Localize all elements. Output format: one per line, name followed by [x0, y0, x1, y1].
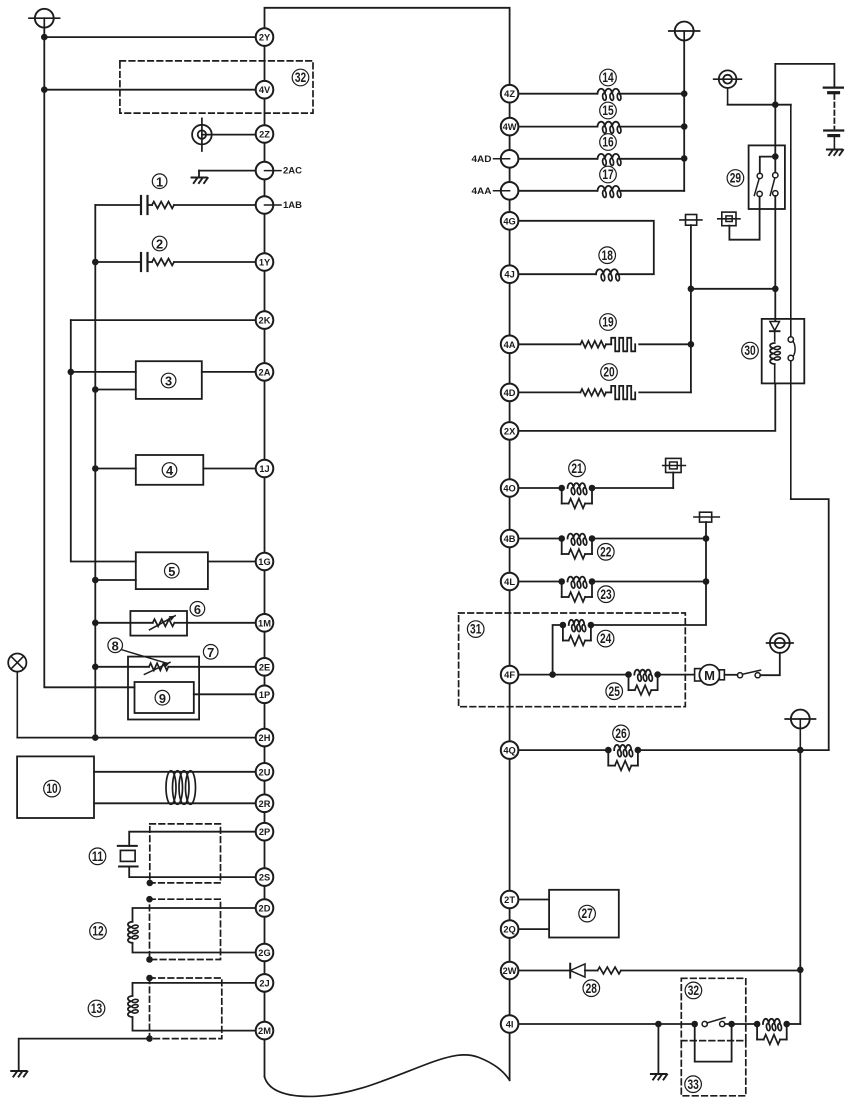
wire 2X to relay30 coil	[510, 383, 776, 431]
box unit 27	[549, 890, 619, 938]
dashed box shield 32 (top, around connector 4V)	[120, 61, 313, 113]
node 2K	[256, 311, 274, 329]
svg-text:4D: 4D	[504, 388, 516, 398]
dashed box shield 13	[150, 978, 222, 1039]
svg-text:19: 19	[602, 315, 613, 331]
junction 4L row at x=706	[703, 578, 710, 585]
junction shield box13 top corner	[146, 975, 153, 982]
svg-text:4W: 4W	[503, 122, 517, 132]
junction x=775 at link	[772, 286, 779, 293]
svg-text:2G: 2G	[258, 948, 270, 958]
box unit 6 variable resistor	[95, 611, 264, 636]
junction box4 on x=95 rail	[92, 465, 99, 472]
svg-text:2AC: 2AC	[283, 166, 302, 177]
svg-text:29: 29	[730, 171, 741, 187]
wire 4B row	[510, 538, 706, 540]
svg-text:9: 9	[159, 691, 166, 706]
svg-text:2M: 2M	[258, 1026, 271, 1036]
svg-text:4G: 4G	[503, 216, 515, 226]
inductor L14 from 4Z	[510, 89, 685, 101]
node 4O	[501, 479, 519, 497]
node 2P	[256, 823, 274, 841]
svg-text:23: 23	[600, 587, 611, 603]
label 16	[600, 134, 617, 151]
symbol coaxial connector at 2Z	[192, 118, 264, 151]
wire link fuse-rail to relay rail	[691, 288, 775, 290]
dashed box switch unit 32 (bottom)	[681, 978, 746, 1040]
dashed box unit 33 (bottom)	[681, 1041, 746, 1096]
junction battery feed	[772, 101, 779, 108]
ground bottom-left	[11, 1071, 27, 1077]
node 2D	[256, 899, 274, 917]
wire battery feed	[728, 64, 835, 105]
svg-text:1: 1	[156, 174, 163, 189]
fuse symbol (square) for 22	[694, 512, 719, 538]
wire into relay 29 from battery rail	[774, 105, 776, 173]
svg-text:2D: 2D	[259, 904, 271, 914]
node 2Z	[256, 125, 274, 143]
diode in relay30	[770, 319, 780, 341]
label 32 bottom	[685, 982, 702, 999]
wire ground tap	[657, 1024, 659, 1074]
svg-text:1G: 1G	[258, 557, 270, 567]
svg-text:2Y: 2Y	[259, 33, 271, 43]
label 15	[600, 102, 617, 119]
unit 24 parallel L-R	[560, 620, 595, 646]
svg-text:4L: 4L	[504, 577, 515, 587]
junction link left	[688, 286, 695, 293]
node 2T	[501, 891, 519, 909]
node 1P	[256, 686, 274, 704]
svg-text:4A: 4A	[504, 340, 516, 350]
svg-text:4F: 4F	[504, 670, 515, 680]
fuse symbol (square) main	[680, 215, 702, 226]
node 2X	[501, 422, 519, 440]
label 7	[203, 645, 218, 660]
wire motor to switch	[724, 674, 737, 676]
svg-text:2W: 2W	[503, 966, 517, 976]
coil L18 between 4G and 4J	[510, 221, 654, 281]
relay29 left branch wire	[760, 157, 776, 174]
label 17	[600, 166, 617, 183]
svg-text:4B: 4B	[504, 534, 516, 544]
junction 2W row at far-right rail	[797, 967, 804, 974]
svg-text:1J: 1J	[259, 464, 269, 474]
relay box 30	[762, 319, 805, 384]
wire rail x=706 down	[705, 539, 707, 582]
symbol lamp/load above inductor bank	[669, 22, 700, 41]
label 12	[90, 923, 107, 940]
label 31	[467, 621, 484, 638]
wire unit24 to 4F row	[553, 625, 563, 675]
label 4AA	[472, 186, 510, 197]
node 4L	[501, 573, 519, 591]
node 2J	[256, 974, 274, 992]
label 32 top	[292, 69, 309, 86]
wire box9 to node 1P	[194, 693, 265, 695]
unit L-R at 4I	[754, 1019, 790, 1044]
label 9	[155, 690, 170, 705]
svg-text:4AA: 4AA	[472, 186, 492, 197]
junction rail at L14	[681, 90, 688, 97]
coupling coil of unit 10	[166, 771, 196, 805]
svg-text:2T: 2T	[504, 895, 515, 905]
wire box3 top-left to inner rail	[71, 371, 136, 373]
inductor L16 from 4AD	[510, 154, 685, 166]
svg-text:15: 15	[602, 103, 613, 119]
label 23	[598, 586, 615, 603]
symbol antenna connector (double circle) top	[714, 70, 742, 104]
node 2G	[256, 944, 274, 962]
box unit 10	[17, 756, 94, 818]
wire 4O row	[510, 473, 674, 489]
svg-text:2Z: 2Z	[259, 130, 270, 140]
junction on left rail at 2Y wire	[41, 34, 48, 41]
fuse symbol (square-in-square) for 21	[663, 458, 686, 472]
svg-text:2A: 2A	[259, 367, 271, 377]
node 1AB	[256, 196, 274, 214]
inductor L15 from 4W	[510, 122, 685, 134]
battery cell 1	[824, 88, 843, 93]
svg-text:2P: 2P	[259, 827, 270, 837]
label 11	[89, 848, 106, 865]
node 2AC	[256, 162, 274, 180]
wire 4I row left	[510, 1023, 695, 1025]
svg-text:18: 18	[602, 248, 613, 264]
junction box5 on x=95 rail	[92, 577, 99, 584]
box unit 4	[136, 455, 204, 485]
relay29 right contact	[770, 173, 778, 197]
label 28	[583, 980, 600, 997]
unit 25 parallel L-R	[625, 670, 661, 695]
unit 26 parallel L-R	[605, 745, 641, 771]
wire box10 to 2U	[94, 771, 265, 773]
resistor R20 from 4D	[510, 386, 691, 400]
fuse symbol (square-in-square) for relay29	[718, 212, 740, 226]
junction switch left	[691, 1021, 698, 1028]
junction 4I ground tap	[655, 1021, 662, 1028]
symbol antenna connector (double circle) right	[767, 633, 793, 653]
svg-text:7: 7	[207, 645, 214, 660]
wire box5 to node 1G	[208, 561, 265, 563]
label 1AB	[265, 200, 303, 211]
capacitor C1 with resistor, node 1AB	[95, 196, 264, 214]
node 4V	[256, 81, 274, 99]
wire 2Q to box27	[510, 928, 549, 930]
wire box4 to node 1J	[203, 468, 264, 470]
svg-text:2K: 2K	[259, 316, 271, 326]
label 30	[742, 342, 759, 359]
svg-text:4J: 4J	[504, 270, 514, 280]
wire switch to unit	[725, 1023, 757, 1025]
label 6	[190, 602, 205, 617]
junction relay29 top	[772, 153, 779, 160]
label 2	[152, 236, 167, 251]
node 4F	[501, 666, 519, 684]
svg-text:2J: 2J	[259, 978, 269, 988]
symbol lamp/load at top-left	[29, 9, 60, 28]
wire fuse rail x=691	[690, 225, 692, 392]
wire wavy cable-break at bottom	[265, 1055, 510, 1097]
svg-text:2Q: 2Q	[503, 925, 515, 935]
label 20	[601, 364, 618, 381]
svg-text:1Y: 1Y	[259, 258, 271, 268]
symbol lamp/load at 4Q	[785, 710, 815, 751]
label 26	[613, 725, 630, 742]
svg-text:4: 4	[166, 463, 174, 478]
relay box 29	[749, 145, 785, 209]
node 2M	[256, 1022, 274, 1040]
svg-text:12: 12	[92, 924, 103, 940]
svg-text:4AD: 4AD	[472, 154, 492, 165]
svg-text:3: 3	[165, 374, 172, 389]
svg-text:26: 26	[615, 726, 626, 742]
svg-text:2E: 2E	[259, 662, 270, 672]
node 1M	[256, 614, 274, 632]
svg-text:28: 28	[586, 981, 597, 997]
svg-text:13: 13	[91, 1001, 102, 1017]
label 14	[600, 69, 617, 86]
junction 4Q row at rail	[797, 747, 804, 754]
wire far-right rail down	[799, 750, 801, 1024]
wire 4F row	[510, 674, 695, 676]
wire shield box13 to ground	[19, 1039, 150, 1071]
svg-text:11: 11	[92, 849, 103, 865]
wire box10 to 2R	[94, 802, 265, 804]
label 18	[599, 247, 616, 264]
label 13	[88, 1000, 105, 1017]
ground at 2AC	[192, 178, 208, 184]
resistor R19 from 4A	[510, 338, 691, 352]
svg-text:1AB: 1AB	[283, 200, 302, 211]
junction rail at L16	[681, 155, 688, 162]
node 2A	[256, 363, 274, 381]
label 33	[685, 1076, 702, 1093]
junction 4B row at x=706	[703, 535, 710, 542]
svg-text:4Q: 4Q	[503, 746, 515, 756]
junction shield box13 bottom corner	[146, 1035, 153, 1042]
box unit 7	[128, 657, 199, 720]
battery dashed link	[833, 95, 835, 129]
crystal unit 11	[118, 832, 265, 877]
wire switch frame (unit 33)	[695, 1024, 732, 1062]
ground at 4I	[651, 1074, 667, 1080]
coil unit 13	[128, 983, 265, 1031]
unit 23 parallel L-R	[558, 577, 595, 602]
wire inductor-bank rail x=684	[683, 40, 685, 190]
svg-text:2H: 2H	[259, 733, 271, 743]
box unit 3	[136, 361, 202, 399]
junction on left rail at 4V wire	[41, 86, 48, 93]
svg-text:8: 8	[112, 638, 119, 653]
wire box3 to node 2A	[202, 371, 265, 373]
wire x=706 to unit 24	[591, 582, 706, 626]
wire 2Y to left rail	[44, 36, 264, 38]
junction shield box12 top corner	[146, 896, 153, 903]
svg-text:2: 2	[156, 237, 163, 252]
svg-text:2U: 2U	[259, 767, 271, 777]
node 4AD	[501, 150, 519, 168]
node 1G	[256, 553, 274, 571]
wire 2AC to ground	[199, 171, 265, 178]
svg-text:4O: 4O	[503, 484, 515, 494]
wire relay30 contact to far-right rail	[791, 499, 829, 750]
svg-text:24: 24	[600, 631, 611, 647]
relay29 left contact wire down to fuse	[729, 197, 759, 240]
relay30 contacts	[788, 105, 795, 499]
wire 2K to inner rail	[71, 319, 265, 321]
wire 4L row	[510, 581, 706, 583]
junction inner rail at box 3	[68, 369, 75, 376]
svg-text:27: 27	[581, 906, 592, 922]
junction comp8 on x=95 rail	[92, 664, 99, 671]
junction switch right	[728, 1021, 735, 1028]
wire left rail x=95 (caps and boxes feed)	[94, 205, 96, 738]
unit 21 parallel L-R	[558, 483, 595, 508]
wire 2T to box27	[510, 899, 549, 901]
node 2H	[256, 729, 274, 747]
node 1J	[256, 460, 274, 478]
dashed box shield 31 (around 4F circuit)	[459, 613, 686, 707]
wire switch to connector symbol	[760, 653, 780, 675]
svg-text:1P: 1P	[259, 690, 270, 700]
svg-text:32: 32	[295, 70, 306, 86]
coil in relay30	[770, 343, 781, 383]
capacitor C2 with resistor, node 1Y	[95, 253, 264, 271]
junction comp6 on x=95 rail	[92, 620, 99, 627]
relay29 left contact	[754, 173, 762, 196]
junction 4F row	[549, 671, 556, 678]
node 4Z	[501, 85, 519, 103]
label 1	[152, 174, 167, 189]
box unit 9	[135, 682, 194, 713]
wire relay29 right contact down	[774, 196, 776, 319]
node 2R	[256, 795, 274, 813]
label 27	[579, 905, 596, 922]
node 4J	[501, 265, 519, 283]
svg-text:5: 5	[168, 564, 175, 579]
svg-text:32: 32	[688, 983, 699, 999]
svg-text:2X: 2X	[504, 426, 516, 436]
label 4	[162, 463, 177, 478]
variable resistor 8 on 2E wire	[95, 662, 264, 674]
node 4G	[501, 212, 519, 230]
motor M	[695, 665, 725, 685]
junction box3 on x=95 rail	[92, 386, 99, 393]
label 22	[598, 544, 615, 561]
node 2U	[256, 763, 274, 781]
junction shield box11 bottom corner	[147, 880, 154, 887]
label 21	[569, 460, 586, 477]
wire box3 lower-left to x=95 rail	[95, 389, 136, 391]
inductor L17 from 4AA	[510, 186, 685, 198]
svg-text:33: 33	[687, 1077, 698, 1093]
svg-text:10: 10	[46, 781, 57, 797]
svg-text:6: 6	[194, 602, 201, 617]
svg-text:4Z: 4Z	[504, 89, 515, 99]
wire inner rail x=70.8	[71, 320, 136, 561]
node 4B	[501, 530, 519, 548]
coil unit 12	[128, 908, 265, 953]
label 19	[600, 314, 617, 331]
lamp symbol bottom-left	[8, 654, 26, 738]
label 2AC	[265, 166, 303, 177]
node 2Y	[256, 28, 274, 46]
ground battery	[827, 150, 843, 156]
node 2W	[501, 962, 519, 980]
node 4A	[501, 336, 519, 354]
node 1Y	[256, 253, 274, 271]
svg-text:14: 14	[602, 70, 613, 86]
wire left rail from top-left symbol down to box 9	[44, 28, 134, 688]
svg-text:2S: 2S	[259, 873, 270, 883]
svg-text:M: M	[704, 668, 715, 683]
node 4AA	[501, 182, 519, 200]
node 2S	[256, 868, 274, 886]
svg-text:2R: 2R	[259, 799, 271, 809]
svg-text:21: 21	[571, 461, 582, 477]
dashed box shield 11 (around crystal)	[150, 824, 221, 883]
node 2E	[256, 658, 274, 676]
dashed box shield 12	[150, 899, 221, 959]
label 5	[165, 563, 180, 578]
label 4AD	[472, 154, 510, 165]
label 8 with leader	[108, 638, 166, 663]
svg-text:4V: 4V	[259, 85, 271, 95]
node 4W	[501, 118, 519, 136]
node 4Q	[501, 741, 519, 759]
node 2Q	[501, 920, 519, 938]
wire unit to far-right rail	[787, 1023, 801, 1025]
label 10	[44, 780, 61, 797]
wire box4 to x=95 rail	[95, 468, 136, 470]
battery cell 2	[824, 131, 843, 150]
svg-text:20: 20	[603, 365, 614, 381]
label 25	[606, 683, 623, 700]
unit 22 parallel L-R	[558, 534, 595, 559]
box unit 5	[136, 552, 208, 589]
wire box5 lower-left to x=95 rail	[95, 579, 136, 581]
label 24	[597, 630, 614, 647]
svg-text:22: 22	[600, 544, 611, 560]
svg-text:30: 30	[744, 343, 755, 359]
svg-text:25: 25	[609, 684, 620, 700]
svg-text:31: 31	[470, 622, 481, 638]
wire lamp to node 2H	[17, 737, 264, 739]
label 3	[161, 373, 176, 388]
svg-text:16: 16	[602, 135, 613, 151]
junction 2H wire at x=95 rail	[92, 734, 99, 741]
svg-text:17: 17	[602, 167, 613, 183]
junction rail at L15	[681, 123, 688, 130]
wire left bus with top link to right bus	[265, 8, 510, 1080]
svg-text:4I: 4I	[506, 1020, 514, 1030]
node 4I	[501, 1015, 519, 1033]
switch after motor	[737, 670, 760, 678]
wire 4Q row	[510, 749, 829, 751]
node 4D	[501, 384, 519, 402]
diode D28 with resistor from 2W	[510, 964, 801, 978]
label 29	[727, 170, 744, 187]
wire 4V to left rail	[44, 89, 264, 91]
switch in unit 32	[702, 1018, 725, 1027]
svg-text:1M: 1M	[258, 618, 271, 628]
junction cap2 on x=95 rail	[92, 259, 99, 266]
junction shield box12 bottom corner	[146, 956, 153, 963]
junction fuse rail at R19	[688, 341, 695, 348]
